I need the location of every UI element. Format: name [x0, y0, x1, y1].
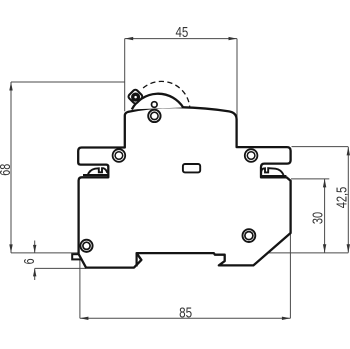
svg-text:30: 30	[310, 212, 326, 224]
pivot rivet inner ring	[151, 112, 158, 119]
right ear rivet inner ring	[247, 152, 255, 160]
svg-text:85: 85	[179, 305, 192, 321]
left ear rivet	[113, 149, 126, 162]
right terminal plate	[261, 175, 287, 177]
DIN rail clip tab	[72, 254, 81, 259]
svg-text:6: 6	[22, 258, 38, 264]
dimension line 68	[10, 82, 12, 253]
extension line 85 left	[79, 254, 81, 318]
toggle knob circle	[133, 94, 139, 100]
extension line 85 right	[289, 233, 291, 318]
left terminal clamp screw	[88, 168, 108, 175]
arrowhead 45 right	[229, 37, 238, 40]
dimension line 30	[324, 179, 326, 253]
left terminal plate	[83, 174, 108, 176]
extension line 30 top	[291, 178, 329, 180]
extension line 45 right	[236, 39, 238, 147]
arrowhead 30 bottom	[323, 244, 326, 253]
toggle knob	[127, 89, 143, 105]
breaker body outline	[78, 107, 290, 267]
pivot rivet	[148, 110, 160, 122]
left body rivet	[80, 240, 92, 252]
DIN catch tooth stem	[136, 253, 138, 266]
arrowhead 68 top	[9, 82, 12, 91]
svg-text:42,5: 42,5	[335, 187, 350, 209]
small circle on dome	[152, 102, 158, 108]
right body rivet inner ring	[245, 232, 253, 240]
arrowhead 85 right	[282, 317, 291, 320]
extension line 42.5 top	[292, 146, 349, 148]
arrowhead 42.5 top	[347, 147, 350, 156]
extension line 68 top	[11, 81, 125, 83]
arrowhead 6 upper	[33, 245, 36, 253]
toggle dome	[132, 94, 183, 110]
dashed toggle travel arc	[143, 81, 190, 109]
svg-text:68: 68	[0, 164, 14, 176]
extension line 45 left	[124, 39, 126, 112]
dimension line 42.5	[347, 147, 349, 253]
left ear rivet inner ring	[115, 152, 123, 160]
shared bottom extension line	[11, 252, 136, 254]
label window	[183, 164, 200, 172]
extension line 6 bottom	[35, 267, 86, 269]
arrowhead 6 lower	[33, 268, 36, 276]
left body rivet inner ring	[83, 242, 90, 249]
right ear rivet	[245, 149, 258, 162]
dimension 6	[34, 241, 36, 253]
dimension line 45	[125, 38, 237, 40]
arrowhead 30 top	[323, 179, 326, 188]
arrowhead 42.5 bottom	[347, 244, 350, 253]
arrowhead 68 bottom	[9, 244, 12, 253]
arrowhead 45 left	[125, 37, 134, 40]
arrowhead 85 left	[80, 317, 89, 320]
right body rivet	[243, 229, 256, 242]
svg-text:45: 45	[176, 25, 189, 41]
dimension line 85	[80, 317, 291, 319]
right terminal clamp screw	[261, 168, 284, 175]
